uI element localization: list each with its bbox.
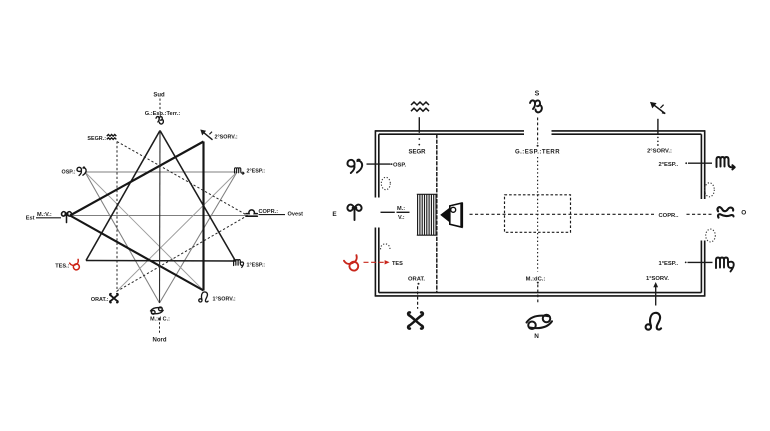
svg-text:M.:V.:: M.:V.: [37, 212, 52, 218]
svg-text:V.:: V.: [398, 215, 405, 221]
svg-text:Ovest: Ovest [288, 212, 304, 218]
svg-text:ORAT.:: ORAT.: [91, 297, 109, 303]
svg-text:TES.:: TES.: [55, 263, 69, 269]
svg-text:M.:: M.: [397, 206, 405, 212]
svg-text:OSP.:: OSP.: [62, 169, 76, 175]
svg-text:SEGR: SEGR [408, 149, 426, 155]
svg-text:N: N [534, 333, 539, 340]
svg-text:Nord: Nord [153, 338, 167, 344]
svg-text:OSP.: OSP. [393, 163, 406, 169]
svg-text:O: O [741, 210, 746, 217]
svg-text:M.:d C.:: M.:d C.: [150, 316, 170, 322]
svg-text:G.:ESP.:TERR: G.:ESP.:TERR [515, 149, 560, 155]
svg-text:SEGR.:: SEGR.: [87, 136, 106, 142]
svg-text:2°ESP..: 2°ESP.. [659, 162, 679, 168]
svg-text:2°SORV.:: 2°SORV.: [647, 149, 672, 155]
svg-text:S: S [535, 90, 540, 97]
svg-text:TES: TES [392, 261, 403, 267]
svg-text:G.:Esp.:Terr.:: G.:Esp.:Terr.: [145, 111, 181, 117]
svg-text:2°SORV.:: 2°SORV.: [215, 135, 238, 141]
svg-text:E: E [332, 211, 337, 218]
svg-text:COPR..: COPR.. [659, 213, 679, 219]
svg-text:1°ESP..: 1°ESP.. [659, 261, 679, 267]
svg-text:COPR.:: COPR.: [259, 209, 279, 215]
svg-text:M.:dC.:: M.:dC.: [526, 276, 546, 282]
svg-text:ORAT.: ORAT. [408, 276, 425, 282]
svg-text:1°SORV.: 1°SORV. [646, 276, 669, 282]
svg-text:2°ESP.:: 2°ESP.: [247, 168, 266, 174]
svg-text:Est: Est [26, 216, 35, 222]
svg-text:Sud: Sud [153, 93, 165, 99]
svg-text:1°SORV.:: 1°SORV.: [213, 297, 236, 303]
svg-text:1°ESP.:: 1°ESP.: [247, 263, 266, 269]
